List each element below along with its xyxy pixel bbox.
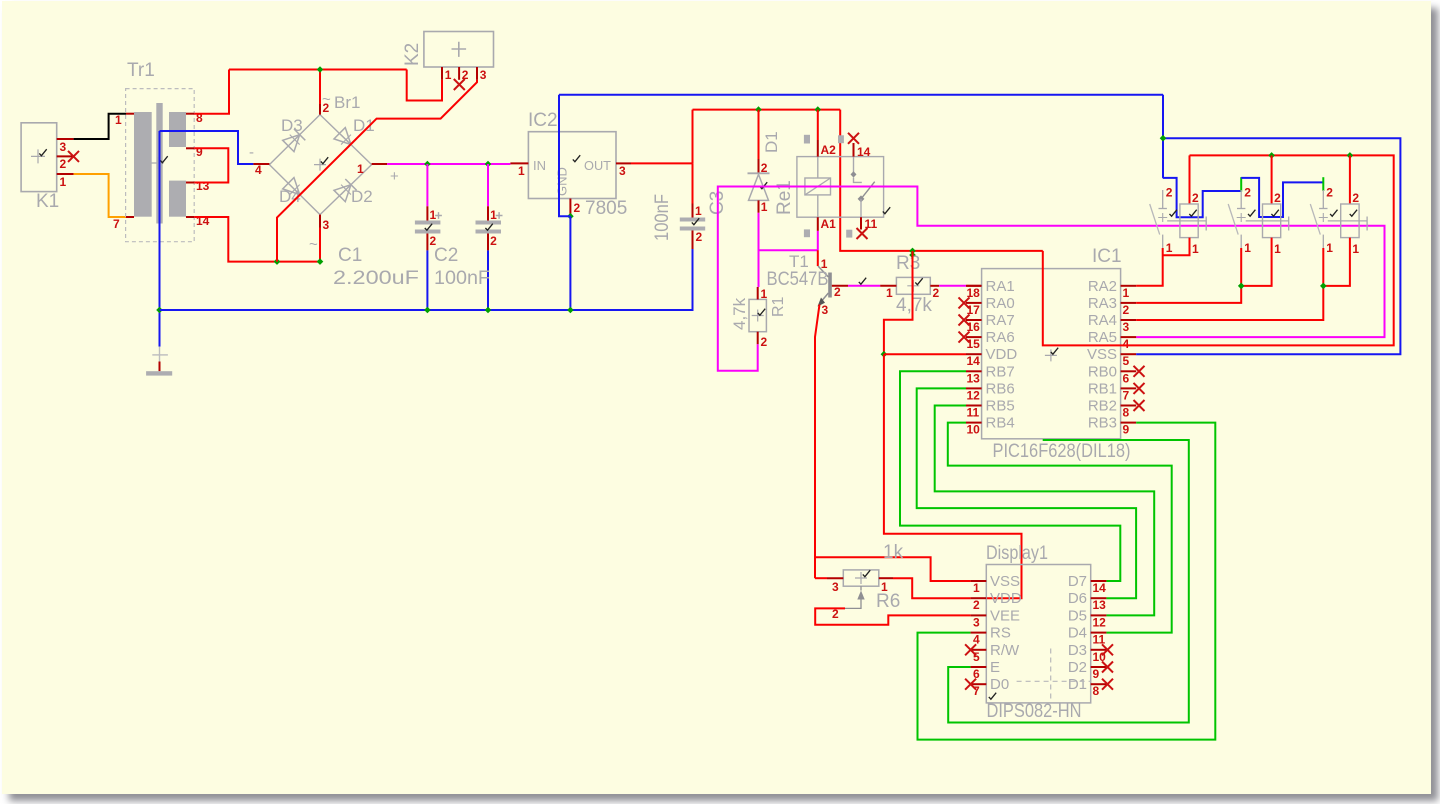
wire +5V down to display VDD <box>884 354 1022 598</box>
no-connect X on Display1 R/W <box>965 644 976 655</box>
svg-text:4: 4 <box>1123 337 1130 351</box>
svg-text:PIC16F628(DIL18): PIC16F628(DIL18) <box>993 441 1131 462</box>
svg-text:4,7k: 4,7k <box>730 297 749 330</box>
junction GND bus at IC2 <box>567 307 574 314</box>
svg-text:3: 3 <box>832 580 839 594</box>
svg-text:1: 1 <box>695 204 702 218</box>
svg-text:4: 4 <box>973 633 980 647</box>
switch S3 body <box>1341 204 1359 238</box>
Tr1 pin stubs <box>126 113 134 115</box>
wire Tr1.8 to top rail <box>194 70 229 114</box>
svg-text:RA7: RA7 <box>986 312 1015 329</box>
svg-text:1: 1 <box>761 200 768 214</box>
svg-text:3: 3 <box>480 68 487 82</box>
svg-text:D3: D3 <box>281 116 303 135</box>
wire R6.2 wiper to display VEE <box>815 608 970 624</box>
resistor R1 <box>749 299 766 331</box>
voltage regulator IC2 <box>528 132 616 199</box>
wire R6.1 to display VDD <box>893 578 971 598</box>
wire GND chain S2 to S3 contact (blue) <box>1241 178 1323 217</box>
no-connect X on Display1 D2 <box>1102 662 1113 673</box>
svg-text:D1: D1 <box>1068 676 1087 693</box>
junction S2 pin 1 <box>1238 283 1245 290</box>
svg-text:2: 2 <box>834 285 841 299</box>
junction bottom rail at diagonal <box>274 258 281 265</box>
svg-text:1: 1 <box>1326 241 1333 255</box>
wire Br1.3 to bottom rail <box>319 228 321 262</box>
wire secondary tap to ground (blue) <box>159 131 161 310</box>
Re1 pin stubs <box>817 140 819 157</box>
no-connect X on IC1 RB0 <box>1134 366 1145 377</box>
diode D2 <box>334 179 357 202</box>
wire Tr1.9 to Tr1.13 <box>194 148 228 182</box>
svg-text:1: 1 <box>1274 242 1281 256</box>
svg-text:8: 8 <box>1093 684 1100 698</box>
wire green stub at S3 contact <box>1322 177 1324 191</box>
wire S1 pins join <box>1163 238 1190 256</box>
svg-text:2: 2 <box>574 201 581 215</box>
junction GND bus at C1 <box>424 307 431 314</box>
svg-text:1: 1 <box>1123 286 1130 300</box>
switch S2 body <box>1263 204 1281 238</box>
svg-text:RB1: RB1 <box>1088 380 1117 397</box>
transistor T1 <box>828 273 832 298</box>
svg-text:RS: RS <box>990 625 1011 642</box>
svg-text:D2: D2 <box>1068 659 1087 676</box>
svg-text:D3: D3 <box>1068 642 1087 659</box>
svg-text:GND: GND <box>555 167 570 196</box>
wire IC1.RB3 to display RS (green) <box>918 423 1216 740</box>
Display1 pin stubs <box>971 580 987 582</box>
svg-text:2.200uF: 2.200uF <box>333 268 419 289</box>
svg-text:Br1: Br1 <box>334 93 360 112</box>
svg-text:14: 14 <box>967 354 981 368</box>
svg-text:R6: R6 <box>876 591 900 612</box>
svg-text:6: 6 <box>1123 371 1130 385</box>
wire GND rail drop at right (blue) <box>1162 95 1164 178</box>
C1 polarity mark <box>435 212 442 219</box>
wire S2 pins join <box>1241 238 1271 286</box>
junction S3 pin 1 <box>1320 283 1327 290</box>
svg-text:DIPS082-HN: DIPS082-HN <box>987 701 1082 722</box>
svg-text:7: 7 <box>1123 388 1130 402</box>
wire top AC rail <box>229 69 407 71</box>
svg-text:2: 2 <box>1274 191 1281 205</box>
svg-text:1: 1 <box>973 581 980 595</box>
svg-text:RA3: RA3 <box>1088 295 1117 312</box>
svg-text:1: 1 <box>430 208 437 222</box>
svg-text:1k: 1k <box>883 542 904 563</box>
svg-text:2: 2 <box>1326 186 1333 200</box>
svg-text:4: 4 <box>255 163 262 177</box>
junction IC2 GND <box>567 213 574 220</box>
connector K2 <box>424 32 494 68</box>
svg-text:D7: D7 <box>1068 573 1087 590</box>
diode D1 (bridge) <box>334 128 357 151</box>
relay Re1 <box>797 157 884 218</box>
junction bottom rail at Br1.3 <box>317 258 324 265</box>
svg-text:R1: R1 <box>770 296 787 317</box>
wire T1 emitter down <box>815 305 820 579</box>
svg-text:VEE: VEE <box>990 607 1020 624</box>
svg-text:RB3: RB3 <box>1088 415 1117 432</box>
svg-text:RA5: RA5 <box>1088 329 1117 346</box>
svg-text:RA6: RA6 <box>986 329 1015 346</box>
wire IC1.RA2 to switch S1 <box>1136 248 1163 286</box>
wire IC1.RA4 to switch S3 <box>1136 248 1323 320</box>
wire S3 pins join <box>1323 238 1350 286</box>
wire +5V riser at C3 <box>692 110 694 164</box>
no-connect X on Re1 pin 14 <box>848 133 859 144</box>
svg-text:R/W: R/W <box>990 642 1020 659</box>
wire +5V top run to relay <box>693 109 841 111</box>
svg-text:K1: K1 <box>36 191 59 212</box>
svg-text:D5: D5 <box>1068 607 1087 624</box>
wire T1 collector <box>817 250 819 266</box>
svg-text:VSS: VSS <box>990 573 1020 590</box>
wire +5V right leg down <box>840 110 1043 251</box>
no-connect X on Display1 D0 <box>965 679 976 690</box>
no-connect X on IC1 RA6 <box>959 332 970 343</box>
svg-text:RB6: RB6 <box>986 380 1015 397</box>
C2 polarity mark <box>496 212 503 219</box>
no-connect X on IC1 RB1 <box>1134 383 1145 394</box>
wire +5V to IC1 VDD <box>884 353 966 355</box>
svg-text:1: 1 <box>1352 242 1359 256</box>
wire +5V crossing down to VDD <box>884 251 913 354</box>
svg-text:5: 5 <box>1123 354 1130 368</box>
svg-text:12: 12 <box>1093 615 1107 629</box>
svg-text:IC1: IC1 <box>1092 246 1122 267</box>
wire green stub at S2 contact <box>1240 177 1242 191</box>
svg-text:2: 2 <box>1244 186 1251 200</box>
wire IC1.RB5 to display D5 (green) <box>935 406 1154 616</box>
capacitor C3 <box>692 204 694 218</box>
diode D3 <box>283 129 306 152</box>
svg-text:2: 2 <box>323 101 330 115</box>
wire Tr1 secondary tap (blue) <box>160 131 254 164</box>
svg-text:1: 1 <box>761 287 768 301</box>
svg-text:3: 3 <box>822 303 829 317</box>
svg-text:RB4: RB4 <box>986 415 1015 432</box>
ground symbol <box>159 310 161 347</box>
svg-text:8: 8 <box>1123 406 1130 420</box>
svg-text:3: 3 <box>323 218 330 232</box>
svg-text:1: 1 <box>357 162 364 176</box>
svg-text:15: 15 <box>967 337 981 351</box>
svg-text:14: 14 <box>1093 581 1107 595</box>
svg-text:1: 1 <box>518 164 525 178</box>
LCD module Display1 <box>986 565 1090 703</box>
svg-text:D2: D2 <box>351 187 373 206</box>
no-connect X on Display1 D3 <box>1102 644 1113 655</box>
svg-text:1: 1 <box>115 113 122 127</box>
svg-text:+: + <box>390 168 399 185</box>
wire top GND rail (blue) <box>559 94 1163 96</box>
svg-text:6: 6 <box>973 667 980 681</box>
svg-text:RA4: RA4 <box>1088 312 1117 329</box>
switch S2 contact <box>1240 190 1242 209</box>
wire IC2 GND down to GND bus <box>569 216 571 310</box>
svg-text:7: 7 <box>113 217 120 231</box>
svg-text:C2: C2 <box>434 245 458 266</box>
junction switch rail at S2 body <box>1268 152 1275 159</box>
wire +5V from IC2.OUT <box>631 162 693 164</box>
svg-text:D0: D0 <box>990 676 1009 693</box>
svg-text:1: 1 <box>445 68 452 82</box>
svg-text:RA2: RA2 <box>1088 278 1117 295</box>
IC1 pin stubs <box>966 285 982 287</box>
svg-text:3: 3 <box>1123 320 1130 334</box>
wire K2.3 diagonal to bottom rail <box>277 80 477 262</box>
wire R3.2 to IC1.RA1 (magenta) <box>939 285 967 287</box>
svg-text:100nF: 100nF <box>652 194 673 241</box>
wire DC+ bus (magenta) Br1.1 to IC2.IN <box>387 163 510 165</box>
svg-text:1: 1 <box>1244 241 1251 255</box>
resistor R3 <box>896 277 930 294</box>
svg-text:3: 3 <box>619 164 626 178</box>
capacitor C1 <box>426 164 428 206</box>
svg-text:VDD: VDD <box>990 590 1022 607</box>
switch S1 contact <box>1162 190 1164 209</box>
svg-text:2: 2 <box>1123 303 1130 317</box>
Re1 terminal pads <box>804 135 810 144</box>
svg-text:9: 9 <box>1093 667 1100 681</box>
svg-text:Re1: Re1 <box>774 180 795 215</box>
flyback diode D1 <box>758 110 760 159</box>
wire T1 base to R3 (magenta) <box>848 285 880 287</box>
junction at ground tap <box>156 307 163 314</box>
junction GND bus at C2 <box>485 307 492 314</box>
svg-text:100nF: 100nF <box>434 268 490 289</box>
svg-text:13: 13 <box>196 179 210 193</box>
wire IC1.RB4 to display D4 (green) <box>948 423 1172 633</box>
wire K1.3 to Tr1.1 (black) <box>74 114 126 139</box>
svg-text:RA0: RA0 <box>986 295 1015 312</box>
svg-text:11: 11 <box>865 217 878 231</box>
connector K1 <box>21 123 57 192</box>
svg-text:3: 3 <box>973 615 980 629</box>
svg-text:11: 11 <box>967 406 980 420</box>
svg-text:2: 2 <box>1352 191 1359 205</box>
wire D1 anode / relay A1 / T1 collector (magenta) <box>758 213 760 287</box>
svg-text:13: 13 <box>967 371 981 385</box>
svg-text:A1: A1 <box>821 217 837 231</box>
svg-text:E: E <box>990 659 1000 676</box>
svg-text:2: 2 <box>490 234 497 248</box>
junction +5V at VDD <box>881 351 888 358</box>
microcontroller IC1 <box>982 269 1121 439</box>
junction DC+ at C2 <box>485 161 492 168</box>
svg-text:K2: K2 <box>402 43 423 66</box>
no-connect X on Display1 D1 <box>1102 679 1113 690</box>
junction top rail / Br1.2 <box>317 66 324 73</box>
svg-text:C1: C1 <box>338 245 362 266</box>
junction +5V at D1 <box>755 106 762 113</box>
wire IC2 GND to top blue rail <box>559 95 570 217</box>
Display1 origin dashes <box>1050 649 1052 702</box>
svg-text:-: - <box>249 144 254 161</box>
wire GND chain to S1/S2 contacts (blue) <box>1163 178 1241 217</box>
junction GND at right rail <box>1160 135 1167 142</box>
svg-text:Display1: Display1 <box>986 543 1048 564</box>
wire E net (green) <box>948 440 1189 723</box>
svg-text:VSS: VSS <box>1087 346 1117 363</box>
no-connect X on IC1 RA7 <box>959 315 970 326</box>
no-connect X on IC1 RA0 <box>959 297 970 308</box>
Re1 contact <box>853 157 855 173</box>
svg-text:1: 1 <box>490 208 497 222</box>
wire GND bus (blue, bottom) <box>160 309 694 311</box>
svg-text:2: 2 <box>761 161 768 175</box>
svg-text:1: 1 <box>60 175 67 189</box>
wire +5V over IC1 to switch rail <box>1043 155 1394 345</box>
wire GND to R6.3 <box>815 577 827 579</box>
svg-text:D6: D6 <box>1068 590 1087 607</box>
svg-text:OUT: OUT <box>584 158 611 173</box>
svg-text:1: 1 <box>1192 242 1199 256</box>
bridge rectifier Br1 outline <box>269 115 371 215</box>
svg-text:2: 2 <box>462 68 469 82</box>
svg-text:2: 2 <box>933 286 940 300</box>
svg-text:IN: IN <box>533 158 546 173</box>
svg-text:VDD: VDD <box>986 346 1018 363</box>
wire top rail to K2.1 <box>407 70 442 101</box>
svg-text:RB7: RB7 <box>986 363 1015 380</box>
svg-text:1: 1 <box>1166 241 1173 255</box>
svg-text:14: 14 <box>857 145 871 159</box>
no-connect X on K2 pin 2 <box>454 79 465 90</box>
svg-text:2: 2 <box>696 230 703 244</box>
junction DC+ at C1 <box>424 161 431 168</box>
svg-text:10: 10 <box>967 423 981 437</box>
svg-text:1: 1 <box>886 286 893 300</box>
svg-text:2: 2 <box>973 598 980 612</box>
transformer Tr1 <box>126 89 195 242</box>
svg-text:2: 2 <box>60 157 67 171</box>
no-connect X on IC1 RB2 <box>1134 400 1145 411</box>
switch S3 contact <box>1322 190 1324 209</box>
capacitor C2 <box>487 164 489 206</box>
svg-text:RB2: RB2 <box>1088 398 1117 415</box>
junction +5V at R3 column <box>909 248 916 255</box>
svg-text:D4: D4 <box>1068 625 1087 642</box>
svg-text:A2: A2 <box>821 143 837 157</box>
trimmer R6 <box>843 570 879 586</box>
svg-text:3: 3 <box>60 140 67 154</box>
svg-text:13: 13 <box>1093 598 1107 612</box>
wire IC1.RA3 to switch S2 <box>1136 248 1241 303</box>
svg-text:9: 9 <box>1123 423 1130 437</box>
svg-text:BC547B: BC547B <box>767 269 829 290</box>
wire K1.1 to Tr1.7 (orange) <box>74 174 126 217</box>
svg-text:IC2: IC2 <box>528 110 558 131</box>
svg-text:D1: D1 <box>762 131 781 153</box>
switch S1 body <box>1180 204 1198 238</box>
diode D4 <box>283 178 306 201</box>
no-connect X on Re1 pin 11 <box>857 228 868 239</box>
svg-text:2: 2 <box>761 335 768 349</box>
wire IC1.RB7 to display D7 (green) <box>900 371 1120 581</box>
wire IC1.RB6 to display D6 (green) <box>917 388 1136 598</box>
svg-text:RB0: RB0 <box>1088 363 1117 380</box>
wire R1.2 / RA5 net (magenta) <box>718 187 1385 371</box>
wire IC1.VSS to GND loop (blue) <box>1136 138 1400 354</box>
svg-text:9: 9 <box>196 145 203 159</box>
Br1 pin stubs <box>253 163 269 165</box>
svg-text:Tr1: Tr1 <box>127 60 155 81</box>
wire AC to Br1.2 <box>319 70 321 105</box>
wire relay A2 from +5V <box>817 110 819 140</box>
svg-text:~: ~ <box>309 236 318 253</box>
junction +5V at relay A2 <box>815 106 822 113</box>
junction switch rail at S3 body <box>1347 152 1354 159</box>
wire emitter/GND to display VSS <box>815 557 971 581</box>
svg-text:2: 2 <box>1192 191 1199 205</box>
svg-text:R3: R3 <box>896 253 920 274</box>
wire switch body feeds <box>1189 155 1191 204</box>
svg-text:4,7k: 4,7k <box>896 295 932 316</box>
no-connect X on K1 pin 2 <box>68 151 79 162</box>
svg-text:2: 2 <box>1166 186 1173 200</box>
wire Tr1.14 to bottom AC rail <box>194 217 320 262</box>
svg-text:RA1: RA1 <box>986 278 1015 295</box>
svg-text:RB5: RB5 <box>986 398 1015 415</box>
svg-text:7805: 7805 <box>585 198 627 219</box>
svg-text:12: 12 <box>967 388 981 402</box>
